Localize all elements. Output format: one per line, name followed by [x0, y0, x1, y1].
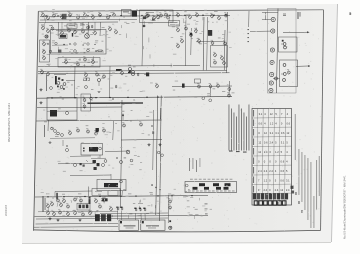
transistor Q402 — [73, 196, 76, 201]
transistor Q161 — [220, 55, 223, 60]
transistor Q150 — [176, 27, 179, 32]
transistor Q109 — [106, 14, 109, 19]
ground at 50-141 — [49, 141, 52, 143]
transistor Q415 — [81, 211, 84, 216]
block border bottom inner — [38, 70, 227, 71]
part at 67-150 — [63, 140, 69, 152]
junction circle on bus 2 — [209, 99, 212, 102]
dark cap tops — [116, 207, 145, 209]
vertical x168 — [167, 195, 170, 223]
transistor Q156 — [197, 38, 200, 43]
transistor Q121 — [73, 29, 76, 34]
svg-text:1.2: 1.2 — [270, 122, 274, 126]
svg-text:0.6: 0.6 — [287, 122, 291, 126]
transistor Q421 — [66, 203, 69, 208]
vertical x111 t302 — [110, 174, 112, 180]
transistor Q187 — [146, 12, 149, 17]
voltage table grid — [252, 109, 292, 206]
thick dark wire y103 — [87, 102, 143, 104]
jack J304 — [270, 72, 274, 76]
transistor Q140 — [42, 41, 45, 46]
dark module M301 — [96, 128, 99, 132]
capacitor C399 — [121, 207, 123, 210]
svg-text:2.4: 2.4 — [275, 188, 279, 192]
transistor Q117 — [210, 13, 213, 18]
label value — [44, 121, 47, 124]
cap C301 — [283, 14, 286, 15]
svg-text:No.US-Mate/Chaminade/DW B300GP: No.US-Mate/Chaminade/DW B300GP37 - MM-34… — [343, 175, 347, 239]
lower stage box — [58, 58, 100, 68]
capacitor C231 — [137, 73, 139, 76]
vertical x191 — [190, 28, 193, 55]
label C407 — [128, 193, 131, 196]
diode D151 — [142, 25, 146, 27]
jack strip outline — [268, 9, 297, 94]
lower cluster parts — [51, 127, 64, 136]
transistor Q173 — [209, 83, 212, 88]
transistor Q302 — [102, 127, 105, 132]
frame top border — [39, 10, 324, 11]
wire bottom bus y226 — [34, 226, 118, 229]
parts right of cluster — [116, 157, 133, 164]
svg-text:20030205: 20030205 — [5, 204, 8, 216]
wire into jack 1 — [262, 19, 271, 21]
transistor Q215 — [120, 70, 123, 75]
wire bottom y218 — [36, 218, 168, 219]
dark box x209 — [208, 30, 212, 36]
label R401 — [46, 193, 49, 196]
label above oscillator — [146, 11, 154, 14]
dot at 152-126 — [151, 125, 152, 126]
small square pair — [84, 78, 90, 88]
transistor Q111 — [152, 15, 155, 20]
relay label hatch — [79, 205, 89, 209]
component stack x99 — [98, 75, 101, 93]
transistor Q141 — [42, 49, 45, 54]
ground G2 — [40, 101, 43, 104]
transistor Q420 — [46, 203, 49, 208]
transistor Q152 — [189, 32, 192, 37]
vertical pair x207 — [206, 17, 209, 71]
transistor Q158 — [211, 40, 214, 45]
power label box — [92, 189, 120, 196]
svg-text:3.1: 3.1 — [270, 131, 274, 135]
label text in IF box — [123, 11, 129, 14]
bottom stub 5 — [96, 210, 98, 212]
wire bus y120 — [36, 120, 162, 121]
dark dot above terminal — [169, 220, 171, 222]
capacitor C403 — [144, 208, 146, 211]
ceramic filter module CF101 — [132, 11, 137, 17]
transistor Q1010 — [112, 12, 115, 17]
wire into jack 2 — [250, 30, 271, 32]
transistor Q102 — [52, 12, 55, 17]
jack J301 — [271, 29, 275, 33]
mesh stub 2 — [74, 22, 76, 27]
ground G1 — [40, 88, 43, 91]
jack J300 — [271, 17, 275, 21]
transistor Q129 — [86, 24, 89, 29]
transistor Q423 — [50, 201, 53, 206]
transistor Q175 — [227, 86, 230, 91]
IF block label box — [122, 10, 132, 17]
transistor Q130 — [64, 59, 67, 64]
right contact box 1 — [279, 37, 298, 52]
transistor Q163 — [222, 60, 225, 65]
oscillator box OSC1 — [140, 10, 174, 23]
capacitor C398 — [117, 207, 119, 210]
svg-text:1.2: 1.2 — [264, 179, 268, 183]
speaker box SP2 — [141, 220, 165, 230]
wire to SP2 c — [144, 214, 146, 221]
transistor Q120 — [60, 30, 63, 35]
ground G10 — [49, 217, 52, 220]
wire y150 partial — [105, 150, 128, 153]
transistor Q411 — [168, 204, 171, 209]
scattered tiny value labels — [41, 9, 232, 216]
dark arrow mark — [116, 69, 122, 71]
wire to SP1 b — [121, 211, 123, 221]
label C101 value — [56, 10, 59, 13]
pin header box — [185, 182, 237, 193]
label R142 — [80, 24, 83, 27]
mesh wire b — [52, 44, 68, 46]
label R107 value — [105, 10, 109, 13]
svg-text:0.6: 0.6 — [281, 131, 285, 135]
transistor Q104 — [68, 12, 71, 17]
wire bus y140 — [121, 139, 162, 142]
dark bar near power box — [56, 193, 58, 200]
wire y138 — [50, 137, 95, 140]
side box x81 — [81, 94, 91, 111]
transistor Q308 — [122, 122, 125, 127]
block border right inner — [223, 30, 226, 71]
contact circle 1b — [284, 46, 287, 49]
short connecting wire stubs — [43, 14, 203, 219]
label R411 — [183, 196, 186, 199]
label C405 — [78, 193, 81, 196]
frame right border — [321, 10, 324, 231]
vertical x160 upper — [159, 108, 161, 121]
mesh stub 5 — [65, 58, 67, 60]
notes numbering marks — [296, 192, 303, 213]
vertical line x110 low — [109, 66, 112, 98]
contact circle 2a — [283, 64, 286, 67]
vertical component bar — [89, 197, 91, 205]
transistor Q182 — [46, 28, 49, 33]
cluster c128 — [128, 65, 136, 76]
ground G12 — [79, 219, 82, 222]
T302 end circle — [120, 180, 123, 183]
vertical x100 t301 — [99, 155, 101, 159]
transistor Q216 — [84, 72, 87, 77]
aux unit box — [280, 60, 298, 87]
vertical line x248 upper — [248, 11, 250, 27]
jack J305 — [269, 81, 273, 85]
junction dots on trunk — [151, 184, 160, 190]
block border bottom outer — [38, 73, 230, 74]
block border right outer — [227, 12, 228, 73]
transistor Q100 — [41, 12, 44, 17]
transistor Q311 — [76, 127, 79, 132]
strip label text — [298, 12, 299, 19]
svg-text:2.4: 2.4 — [286, 188, 290, 192]
rotated notes list — [295, 114, 320, 228]
label R110 value — [214, 10, 218, 13]
cross mark y99 — [112, 98, 114, 100]
transistor Q123 — [93, 30, 96, 35]
wire bus y22 — [39, 21, 118, 24]
mark beside label — [80, 24, 85, 27]
transistor Q218 — [102, 73, 105, 78]
dark blob x191 — [190, 33, 192, 35]
transistor Q217 — [95, 71, 98, 76]
SP1 corner mark — [120, 221, 122, 223]
AC IN rotated label — [43, 196, 46, 212]
wire top bus B — [40, 19, 137, 22]
scan noise speckle — [36, 12, 321, 231]
inner box divider — [47, 110, 77, 112]
label 50Hz — [55, 135, 59, 138]
wire y163 partial — [58, 162, 95, 165]
vertical x48 drop — [47, 120, 49, 131]
transistor Q128 — [67, 27, 70, 32]
svg-text:0.6: 0.6 — [259, 122, 263, 126]
transistor Q422 — [98, 203, 101, 208]
transistor Q185 — [108, 26, 111, 31]
capacitor C171 dark — [182, 84, 185, 88]
mesh stub 6 — [79, 58, 81, 61]
transistor Q101 — [46, 15, 49, 20]
transistor Q106 — [83, 12, 86, 17]
label R406 — [98, 193, 101, 196]
frame left border — [34, 11, 39, 231]
junction circle on bus 1 — [202, 97, 205, 100]
transistor Q202 — [46, 71, 49, 76]
svg-text:0.6: 0.6 — [264, 141, 268, 145]
mesh wire a — [56, 29, 100, 32]
label C410 — [168, 193, 171, 196]
jack J306 — [269, 88, 273, 92]
vertical x210 stub — [209, 87, 211, 97]
transistor Q133 — [91, 59, 94, 64]
ground G3 — [148, 143, 151, 146]
transistor Q132 — [83, 56, 86, 61]
label cluster value — [176, 24, 179, 27]
label R181 — [41, 24, 44, 27]
dark boxed label NEG — [59, 34, 67, 39]
amp stage box — [51, 30, 107, 55]
rotary switch cluster SW201 — [54, 75, 75, 90]
tiny label column B — [43, 125, 46, 137]
vertical line x88 — [87, 22, 90, 36]
wire bottom bus y196 — [35, 196, 208, 198]
svg-text:2.4: 2.4 — [264, 169, 268, 173]
transistor Q310 — [68, 130, 71, 135]
vertical trunk x121 — [121, 100, 123, 208]
transistor Q301 — [94, 130, 97, 135]
wire mid bus y97 — [37, 97, 232, 99]
transistor Q416 — [88, 210, 91, 215]
capacitor C402 — [140, 208, 142, 211]
voltage table cell values — [258, 112, 291, 192]
dark bar x72 — [72, 33, 73, 37]
transistor Q300 — [86, 128, 89, 133]
wire y175 — [70, 174, 111, 177]
contact circle 1a — [281, 43, 286, 46]
transistor Q115 — [188, 14, 191, 19]
electrolytic C232 — [144, 73, 149, 77]
wire bottom y223 — [36, 222, 119, 225]
shielded module cluster — [91, 158, 107, 170]
wire to SP2 a — [135, 214, 137, 221]
paper right edge — [332, 4, 338, 242]
junction circle trunk a — [157, 151, 160, 154]
wire y191 into power box — [55, 190, 92, 193]
SP1 label — [124, 225, 136, 228]
row44 parts — [47, 42, 96, 45]
label C131 — [52, 40, 55, 43]
contact circle 2b — [281, 73, 286, 76]
vertical line x185 — [184, 16, 187, 66]
mesh wire d — [62, 61, 98, 63]
dark cap pair A — [102, 198, 108, 201]
transistor Q424 — [59, 202, 62, 207]
contact circle 2c — [283, 79, 286, 82]
elco bank — [95, 214, 111, 221]
small vertical note lines — [189, 158, 200, 172]
paper bottom edge — [22, 243, 331, 244]
transistor Q241 — [287, 69, 290, 74]
transistor Q155 — [194, 28, 197, 33]
transistor Q151 — [184, 25, 187, 30]
dark module top row — [62, 14, 67, 19]
buffer stage box — [211, 46, 228, 68]
SP2 corner mark — [142, 221, 144, 223]
speaker box SP1 — [119, 220, 139, 230]
bottom stub 3 — [104, 196, 106, 199]
wire row y86 — [172, 85, 232, 88]
transistor Q103 — [60, 14, 63, 19]
dark contact mark — [282, 40, 284, 42]
left column chain box — [40, 40, 50, 62]
label R182 — [49, 24, 52, 27]
junction circle SW — [50, 87, 53, 90]
transistor Q183 — [51, 25, 54, 30]
transistor Q110 — [145, 13, 148, 18]
box edge vertical x153 — [152, 110, 155, 170]
transistor Q142 — [42, 55, 45, 60]
transistor Q413 — [66, 211, 69, 216]
transistor Q112 — [159, 12, 162, 17]
strip top edge wire — [262, 11, 278, 13]
T301 left marks — [83, 148, 85, 152]
label AC POWER — [95, 190, 102, 193]
svg-text:2.4: 2.4 — [258, 169, 262, 173]
arrow wire y66 — [296, 65, 310, 67]
wire bus y107 — [37, 106, 122, 109]
row51 parts — [49, 49, 97, 53]
svg-text:0.6: 0.6 — [281, 160, 285, 164]
vertical line x75 low — [74, 66, 77, 98]
transistor Q114 — [176, 12, 179, 17]
wire to SP1 a — [117, 211, 119, 221]
svg-text:3.1: 3.1 — [259, 112, 263, 116]
capacitor C305 — [152, 131, 154, 134]
transistor Q153 — [180, 38, 183, 43]
transistor Q309 — [139, 121, 142, 126]
capacitor C122 — [91, 25, 93, 28]
pin header top text row — [190, 178, 232, 181]
transistor Q403 — [79, 197, 82, 202]
note marks right of band — [205, 204, 208, 215]
svg-text:0.6: 0.6 — [280, 179, 284, 183]
osc transformer T302 box — [97, 180, 126, 191]
transistor Q400 — [56, 197, 59, 202]
transistor Q118 — [217, 15, 220, 20]
svg-text:3.1: 3.1 — [286, 179, 290, 183]
transistor Q119 — [224, 12, 227, 17]
svg-text:RM-W300GP/GY1 MM-3441: RM-W300GP/GY1 MM-3441 — [7, 103, 11, 142]
vertical x229 — [228, 81, 231, 97]
trimmer VR301 — [126, 150, 130, 154]
SP2 label — [146, 225, 159, 228]
junction circle y98 — [90, 97, 93, 100]
transistor Q176 — [227, 92, 230, 97]
boxed label above Q172 — [195, 79, 201, 83]
IC can Q125 — [85, 32, 90, 38]
label R402 — [62, 193, 65, 196]
capacitor C121 — [88, 25, 90, 28]
vertical x88 up — [87, 187, 89, 197]
mesh wire c — [52, 51, 104, 54]
junction circle in box — [66, 112, 69, 115]
svg-text:3.1: 3.1 — [281, 141, 285, 145]
pin header circle — [186, 184, 189, 187]
transistor Q105 — [76, 14, 79, 19]
dark part left — [45, 35, 48, 38]
vertical pair x203 — [202, 17, 205, 71]
ground G11 — [57, 219, 60, 222]
label C401 values — [138, 202, 143, 205]
vertical line x100 — [99, 22, 102, 36]
relay label box — [77, 203, 90, 210]
vertical trunk x162 — [160, 96, 162, 222]
pin header digits row — [188, 190, 235, 193]
part at x123 above bus — [122, 111, 125, 121]
rotated signal-name list — [229, 105, 250, 151]
label R103 value — [72, 10, 76, 13]
transistor Q412 — [58, 209, 61, 214]
node dots x248 — [248, 29, 249, 42]
transistor Q405 — [102, 197, 105, 202]
terminal circled plus — [169, 226, 172, 229]
tuner unit box — [47, 98, 77, 121]
transistor Q108 — [98, 12, 101, 17]
vertical line x58 — [57, 22, 60, 36]
svg-text:5: 5 — [349, 12, 351, 16]
vertical x55 drop — [54, 192, 56, 198]
label R409 — [150, 193, 153, 196]
bottom wire y211 — [38, 210, 118, 213]
boxed label pair — [169, 21, 180, 27]
arrow wire y32 — [283, 31, 310, 33]
tiny label column A — [45, 75, 48, 91]
wire bus y66 — [38, 66, 200, 67]
cluster left parts — [74, 160, 89, 167]
IF transformer T301 box — [81, 144, 103, 156]
vertical line x142 — [142, 17, 143, 66]
